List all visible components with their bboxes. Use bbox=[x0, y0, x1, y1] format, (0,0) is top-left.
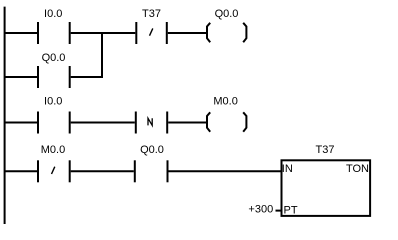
wire rung2 rail to contact I0.0 bbox=[4, 122, 37, 124]
svg-text:Q0.0: Q0.0 bbox=[42, 52, 66, 64]
label T37 timer bbox=[316, 144, 335, 156]
left power rail bbox=[4, 7, 6, 224]
svg-text:Q0.0: Q0.0 bbox=[215, 8, 239, 20]
svg-text:TON: TON bbox=[346, 163, 369, 175]
value label +300 bbox=[248, 204, 273, 216]
wire rung2 contact N to coil M0.0 bbox=[168, 122, 207, 124]
wire rung3 rail to contact M0.0 bbox=[4, 170, 37, 172]
wire rung1 rail to contact I0.0 bbox=[4, 32, 37, 34]
wire rung2 contact I0.0 to contact N bbox=[71, 122, 135, 124]
svg-text:T37: T37 bbox=[316, 144, 335, 156]
NC contact M0.0 bbox=[38, 160, 70, 182]
pin label IN bbox=[282, 163, 293, 175]
svg-text:I0.0: I0.0 bbox=[44, 8, 62, 20]
wire rung1 contact T37 to coil Q0.0 bbox=[168, 32, 207, 34]
timer box T37 TON bbox=[282, 160, 371, 216]
label I0.0 rung2 bbox=[44, 96, 62, 108]
svg-text:+300: +300 bbox=[248, 204, 273, 216]
coil M0.0 bbox=[207, 112, 246, 131]
contact I0.0 rung2 bbox=[38, 112, 70, 134]
label M0.0 coil rung2 bbox=[213, 96, 237, 108]
svg-text:M0.0: M0.0 bbox=[213, 96, 237, 108]
svg-text:Q0.0: Q0.0 bbox=[140, 144, 164, 156]
wire rung1 contact I0.0 to contact T37 bbox=[71, 32, 136, 34]
label Q0.0 coil rung1 bbox=[215, 8, 239, 20]
contact Q0.0 branch bbox=[38, 66, 70, 88]
wire branch contact Q0.0 to join bbox=[71, 76, 103, 78]
pin label TON bbox=[346, 163, 369, 175]
wire branch rail to contact Q0.0 bbox=[4, 76, 37, 78]
wire rung3 contact M0.0 to contact Q0.0 bbox=[71, 170, 134, 172]
wire PT input stub bbox=[276, 210, 281, 212]
contact I0.0 rung1 bbox=[38, 22, 70, 44]
svg-text:M0.0: M0.0 bbox=[41, 144, 65, 156]
label Q0.0 branch bbox=[42, 52, 66, 64]
coil Q0.0 bbox=[207, 23, 246, 42]
label I0.0 rung1 bbox=[44, 8, 62, 20]
NC contact T37 bbox=[136, 22, 167, 44]
svg-text:I0.0: I0.0 bbox=[44, 96, 62, 108]
negative edge contact N bbox=[136, 112, 167, 134]
label T37 rung1 bbox=[142, 8, 161, 20]
vertical branch join wire bbox=[101, 32, 103, 78]
contact Q0.0 rung3 bbox=[135, 160, 168, 182]
svg-text:IN: IN bbox=[282, 163, 293, 175]
svg-text:T37: T37 bbox=[142, 8, 161, 20]
pin label PT bbox=[284, 205, 298, 217]
label Q0.0 rung3 bbox=[140, 144, 164, 156]
wire rung3 contact Q0.0 to timer box IN bbox=[169, 170, 281, 172]
label M0.0 rung3 bbox=[41, 144, 65, 156]
svg-text:PT: PT bbox=[284, 205, 298, 217]
